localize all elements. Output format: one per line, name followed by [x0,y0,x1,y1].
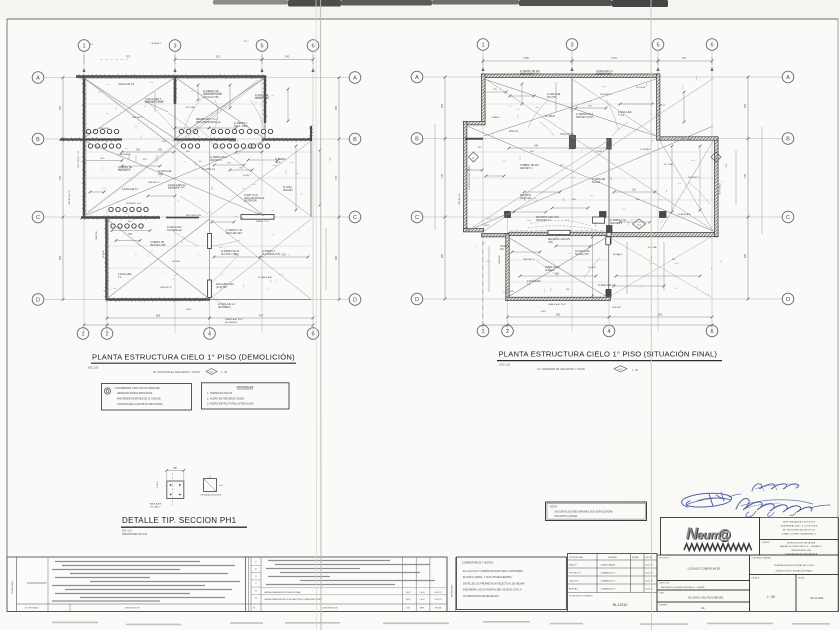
left plan wall stub axis 3 [174,77,177,105]
svg-text:1710: 1710 [611,56,617,60]
right plan interior wall axis 3 [571,78,573,138]
left plan title underline [91,362,296,364]
svg-text:CLIENTE: CLIENTE [762,542,771,544]
svg-text:VER DET 2: VER DET 2 [132,117,144,119]
left plan diagonal braces band B-C right [210,141,312,216]
nota box [546,502,647,521]
bottom revisiones strip [446,557,448,612]
right plan column block C axis2 [505,212,511,218]
left plan top wall A [76,75,266,77]
svg-text:MANTENER DESPUES DE 21 DIAS DE: MANTENER DESPUES DE 21 DIAS DE [117,398,161,401]
title block escala box [750,575,797,612]
svg-text:3. ACERO ESTRUCTURAL A270ES: 3. ACERO ESTRUCTURAL A270ES & A36 [207,403,254,406]
left plan grid horizontals [44,77,349,79]
bottom table left sub dash [27,582,47,584]
svg-text:PLANTA DE ESTRUCTURA CIELO PIS: PLANTA DE ESTRUCTURA CIELO PISO [774,564,815,567]
svg-text:ESCALA: ESCALA [752,577,760,580]
svg-text:C: C [353,215,357,221]
right plan left wall hatched [464,122,467,232]
left plan right dimension line [338,78,340,300]
svg-text:S/ LOSA: S/ LOSA [648,246,657,249]
svg-text:INGENIERIA, SOLO PODRAN SER US: INGENIERIA, SOLO PODRAN SER USADOS CON L… [463,589,522,592]
svg-text:PL 2: PL 2 [660,105,665,107]
svg-text:5: 5 [260,43,263,49]
right plan grid horizontals [423,76,782,78]
svg-text:2x PERFIL C: 2x PERFIL C [234,123,248,125]
svg-text:4 ANCLAJES: 4 ANCLAJES [118,153,132,156]
svg-text:VER DET 3: VER DET 3 [118,170,131,172]
svg-text:S/CIELO (TIP): S/CIELO (TIP) [596,74,611,76]
svg-text:N°: N° [253,608,255,610]
svg-text:PL 2: PL 2 [244,41,249,43]
neuma logo zigzag band [684,544,752,551]
neuma logo text [686,525,732,544]
svg-text:3: 3 [570,42,573,48]
svg-text:TABIQUE: TABIQUE [95,230,98,240]
svg-text:767: 767 [126,55,131,59]
svg-text:RECORTE CIELO S/N: RECORTE CIELO S/N [536,217,559,219]
left legend box demolition note [102,384,192,411]
right plan B-line wall segment left [465,138,483,140]
svg-text:S/LOSA (TIP): S/LOSA (TIP) [575,253,589,256]
svg-text:N 208 T: N 208 T [596,151,604,153]
svg-text:05.11.21: 05.11.21 [646,589,655,591]
svg-text:A: A [786,75,790,81]
svg-text:DESCRIPCION: DESCRIPCION [323,608,338,610]
svg-text:S/ DEM: S/ DEM [172,261,180,263]
approvals table frame [568,554,658,612]
svg-text:1: 1 [81,331,84,337]
svg-text:2x PERFIL: 2x PERFIL [640,149,651,151]
svg-text:P: P [473,156,475,160]
svg-text:S/PLACA 150x150x8: S/PLACA 150x150x8 [201,494,222,497]
svg-text:6: 6 [710,42,713,48]
svg-text:2x PERFIL T-10: 2x PERFIL T-10 [610,220,627,222]
left plan bottom wall D [107,298,211,300]
svg-text:TIP. DET 6: TIP. DET 6 [168,188,180,190]
right plan bottom wall D [506,297,611,300]
svg-text:DETALLES, ES PROPIEDAD INTELEC: DETALLES, ES PROPIEDAD INTELECTUAL DE NE… [463,582,525,585]
svg-text:TABIQUE: TABIQUE [498,254,501,264]
svg-text:(TIP): (TIP) [548,242,553,244]
detail section PH1 square 2 [204,479,217,492]
svg-text:S/ LOSA V-2: S/ LOSA V-2 [202,168,216,171]
title block formato row [657,602,750,612]
svg-text:2x ANCLA B-2: 2x ANCLA B-2 [167,226,182,229]
left plan grid bubbles letters left [32,72,44,84]
page border left [6,19,8,612]
svg-text:D: D [36,297,40,303]
bottom table letter column [250,557,252,612]
svg-text:2x ANCLAJE: 2x ANCLAJE [158,170,172,173]
svg-text:05.11.21: 05.11.21 [646,573,655,575]
svg-text:CONTENIDO LAMINA: CONTENIDO LAMINA [752,557,772,560]
svg-text:VIGA V-2: VIGA V-2 [500,245,510,248]
svg-text:B: B [786,136,790,142]
left plan wall axis 4 B-C [209,139,211,217]
svg-text:CONSTRUIDA LA ESTRUCTURA NUEVA: CONSTRUIDA LA ESTRUCTURA NUEVA. [117,403,164,406]
svg-text:N° PROYECTO INTERNO: N° PROYECTO INTERNO [569,596,593,598]
svg-text:05.11.21: 05.11.21 [646,581,655,583]
right plan diagonals top room [484,79,656,136]
left plan diagonal braces room A-B right [176,78,264,138]
svg-text:N 208: N 208 [243,175,250,177]
svg-text:1750: 1750 [523,56,529,60]
right plan diagonals lower room [508,237,607,297]
svg-text:VIGA V-1: VIGA V-1 [509,130,519,133]
svg-text:REEMPLAZO T, N-7: REEMPLAZO T, N-7 [196,118,218,121]
svg-text:A1: A1 [701,606,705,610]
svg-text:VER LAM DETALLE: VER LAM DETALLE [244,197,265,200]
svg-text:1: 1 [82,43,85,49]
svg-text:NL: SUPLANTA EL CIELO/PISO Y V: NL: SUPLANTA EL CIELO/PISO Y VIGAS [153,371,200,374]
right plan recorte bar 2 [593,217,605,223]
svg-text:N/ DEM.: N/ DEM. [103,249,105,258]
svg-text:SERVICIOS RIO SELVA SPA: SERVICIOS RIO SELVA SPA [787,542,815,545]
svg-text:NI-21010: NI-21010 [613,603,628,607]
svg-text:CIELO S/N: CIELO S/N [520,198,532,200]
svg-text:TAL DETALLE: TAL DETALLE [167,229,182,232]
svg-text:05.11.21: 05.11.21 [646,565,655,567]
svg-text:825: 825 [441,253,444,258]
svg-text:CON EXP/O LAMINA: CON EXP/O LAMINA [554,515,578,518]
right plan C wall middle segment [509,232,607,236]
svg-text:825: 825 [59,255,62,260]
svg-text:575: 575 [441,103,444,108]
left plan left dimension line [62,78,64,300]
svg-text:775: 775 [335,175,338,180]
right plan white bar below C at axis4 [606,237,611,245]
svg-text:VER DET 2: VER DET 2 [688,177,700,179]
right plan extra dim ticks [484,91,506,93]
bottom table bottom row labels left [17,603,448,605]
svg-text:J.M.V: J.M.V [406,592,412,594]
svg-text:D: D [353,297,357,303]
svg-text:2. ACERO DE REFUERZO A630S: 2. ACERO DE REFUERZO A630S [207,397,245,400]
svg-text:N ANCLAJE T-2: N ANCLAJE T-2 [596,70,613,73]
svg-text:NL: SUPERIOR DE CIELO/PISO Y V: NL: SUPERIOR DE CIELO/PISO Y VIGAS [538,368,586,371]
svg-text:PLANTA ESTRUCTURA CIELO 1° PIS: PLANTA ESTRUCTURA CIELO 1° PISO (DEMOLIC… [92,353,295,362]
right plan grid bubbles letters right [782,71,794,83]
svg-text:1: 1 [481,329,484,335]
svg-text:VIGA V-1 S/N: VIGA V-1 S/N [560,133,574,136]
svg-text:B: B [415,136,419,142]
left plan grid verticals [83,51,85,333]
svg-text:DEMOLER ZONAS PERCANAS.: DEMOLER ZONAS PERCANAS. [117,392,153,395]
right plan recorte bar 1 [548,230,570,234]
right plan bottom dimension lines [508,316,610,318]
left plan demolition circles row C lower [111,224,115,228]
left plan demolition circles row B upper [86,129,90,133]
right plan dashed leader arcs [530,220,592,226]
right plan lower-left wall axis 2 [506,234,509,301]
svg-text:S/N: S/N [500,249,504,251]
svg-text:INVERSIONES SPA: INVERSIONES SPA [791,549,811,552]
svg-text:FECHA: FECHA [435,607,442,610]
page border top [7,18,838,20]
left plan grid bubbles letters right [349,72,361,84]
svg-text:A PLACA (TIP): A PLACA (TIP) [203,96,219,99]
svg-text:VER DET 8: VER DET 8 [160,287,172,289]
svg-text:775: 775 [744,173,747,178]
left plan new column bar axis4 upper [208,234,212,249]
svg-text:HE-A: HE-A [275,161,281,164]
svg-text:2: 2 [506,329,509,335]
svg-text:950: 950 [556,313,561,317]
svg-text:2 ANCLAJES: 2 ANCLAJES [527,280,541,283]
svg-text:2 ANCLAJES: 2 ANCLAJES [118,273,132,276]
svg-text:VER DET: VER DET [612,307,622,309]
fold line left [315,0,318,630]
svg-text:VER DET 4 (TIP): VER DET 4 (TIP) [576,117,594,119]
svg-text:2x ANCLAJE: 2x ANCLAJE [255,94,269,97]
right plan lower room dim line [592,237,594,296]
svg-text:DETALLE TIP. SECCION PH1: DETALLE TIP. SECCION PH1 [122,516,237,525]
svg-text:575: 575 [59,105,62,110]
svg-text:DESCRIPCION: DESCRIPCION [125,608,140,610]
left plan long diagonal [90,82,262,214]
svg-text:2x ANCLAJE: 2x ANCLAJE [592,178,606,181]
left plan long cross diagonals [85,79,263,215]
svg-text:4: 4 [208,331,211,337]
svg-text:T. N-4: T. N-4 [618,115,625,117]
right plan faint extension lines [483,103,658,105]
approvals table columns [596,554,598,593]
svg-text:NOMBRE: NOMBRE [608,557,617,559]
svg-text:PLANTA ESTRUCTURA CIELO 1° PIS: PLANTA ESTRUCTURA CIELO 1° PISO (SITUACI… [499,350,718,359]
right plan C-line short wall axis1-2 [482,234,510,237]
title block client box [760,540,839,556]
right plan column block C axis5 area [660,212,667,218]
right plan upper-right horizontal wall [658,137,718,140]
left plan grid bubbles bottom [77,328,89,340]
svg-text:S/N 2: S/N 2 [541,311,547,313]
svg-text:A: A [415,75,419,81]
svg-text:1: 1 [481,42,484,48]
svg-text:E-MAIL: CONTACTO@NEUMA.CL: E-MAIL: CONTACTO@NEUMA.CL [782,533,817,536]
svg-text:N 2087 T.N-R: N 2087 T.N-R [244,195,258,197]
svg-text:PROYECTO: PROYECTO [569,573,581,575]
svg-text:CALCULO: CALCULO [569,580,579,583]
svg-text:= ALTAPRIMAR CADA NO UN ANTES: = ALTAPRIMAR CADA NO UN ANTES DE [114,387,160,390]
title block proyecto box [657,555,750,581]
right plan upper-right wall axis 5 [657,74,660,140]
svg-text:S/N: S/N [572,199,576,201]
left plan speckle marks [88,141,90,143]
svg-text:2x PERFIL T.: 2x PERFIL T. [262,251,276,253]
svg-text:825: 825 [335,255,338,260]
svg-text:J.M.V: J.M.V [406,599,412,601]
svg-text:DIBUJO: DIBUJO [569,565,577,567]
svg-text:FECHA: FECHA [798,577,805,580]
svg-text:575: 575 [335,105,338,110]
left plan diagonal braces room C-D right [210,219,312,299]
right plan interior wall axis 4 B-C [608,139,610,232]
svg-text:PLAN: PLAN [659,592,664,595]
neuma logo box [661,518,760,556]
svg-text:1 : 50: 1 : 50 [632,369,639,372]
svg-text:575: 575 [744,103,747,108]
svg-text:(EXTREMO): (EXTREMO) [218,307,231,309]
svg-text:(EXTREMO): (EXTREMO) [225,322,238,324]
svg-text:RECORTE LOSA S/N: RECORTE LOSA S/N [548,238,570,241]
left plan left wall axis 1 [83,77,85,218]
svg-text:4 Ø 12: 4 Ø 12 [157,481,159,488]
svg-text:N ANCL.: N ANCL. [492,116,501,119]
svg-text:N ANCLAJE T.N.2: N ANCLAJE T.N.2 [225,318,243,321]
left plan wall axis 6 segment [310,126,312,141]
svg-text:CARGA PARA MUERTOS ADICIONAL: CARGA PARA MUERTOS ADICIONAL [264,591,302,594]
left plan new beam bar at C [241,215,274,220]
bottom table right sub columns [402,557,404,612]
svg-text:825: 825 [744,253,747,258]
left plan wall axis 4 C-D [209,217,211,300]
svg-text:VER DET 6: VER DET 6 [148,182,160,184]
left plan right wall axis 5 [264,77,266,124]
svg-text:SUP. CIELO: SUP. CIELO [720,183,722,195]
left materials box [202,383,290,409]
right plan long cross diagonals [484,78,714,231]
svg-text:NURO MECANICA Y ESTUDIOS: NURO MECANICA Y ESTUDIOS [783,521,816,524]
svg-text:AUTORIZACION DE NEUMA INC.: AUTORIZACION DE NEUMA INC. [463,595,500,598]
left plan leader arcs [168,113,200,137]
left plan diagonal braces band B-C [84,141,264,216]
svg-text:2 ANCLAJES: 2 ANCLAJES [618,111,632,114]
svg-text:VER DET 4: VER DET 4 [600,94,612,96]
svg-text:ESC 1:50: ESC 1:50 [500,364,511,367]
right plan left bottom step [464,229,484,232]
right plan C-line main wall [611,232,718,236]
svg-text:S/ELIM 2x4: S/ELIM 2x4 [459,193,461,205]
left plan grid bubbles top [78,40,90,52]
svg-text:447: 447 [259,314,264,318]
svg-text:PL 150x8: PL 150x8 [545,116,555,118]
svg-text:PASCUALES QUINTAY ESQUINA LTL.: PASCUALES QUINTAY ESQUINA LTL. CESARE [661,586,705,589]
svg-text:L. ARANGUIZ G.: L. ARANGUIZ G. [600,588,616,591]
right plan grid1 dashed below C [482,233,484,330]
right plan grid verticals [482,51,484,331]
left plan extra dim ticks [84,160,122,162]
svg-text:RECORTE S/N: RECORTE S/N [186,215,201,217]
svg-text:T-10: T-10 [330,157,332,162]
signature blue flourish oval [682,484,830,517]
detail square1 dimension [167,470,184,472]
svg-text:VER DET 4: VER DET 4 [210,160,223,162]
svg-text:T-10: T-10 [726,163,728,168]
bottom revision table frame [7,557,447,612]
left plan small arrows at grids [82,68,85,72]
left plan demolition circles row B lower [88,144,92,148]
svg-text:NI-21010-CAL-PLN-200-001: NI-21010-CAL-PLN-200-001 [688,595,724,599]
bottom table left label column [16,557,18,612]
svg-text:REVISIONES: REVISIONES [451,584,453,597]
svg-text:6: 6 [311,331,314,337]
svg-text:2x ANCLAJE: 2x ANCLAJE [678,213,691,216]
svg-text:PROYECTO: PROYECTO [659,558,670,560]
svg-text:C: C [36,215,40,221]
svg-text:COMENTARIOS Y NOTAS:: COMENTARIOS Y NOTAS: [462,561,494,565]
svg-text:N PERFIL HE: N PERFIL HE [118,167,133,169]
svg-text:6: 6 [311,43,314,49]
svg-text:1 : 50: 1 : 50 [221,371,228,374]
svg-text:L.A.G: L.A.G [420,598,425,601]
svg-text:S/N 2: S/N 2 [484,225,490,227]
svg-text:2x PERFIL HE 200: 2x PERFIL HE 200 [520,71,540,73]
svg-text:4 ANCLAJE T.V.: 4 ANCLAJE T.V. [122,188,139,191]
svg-text:EN ESTA LAMINA, Y SUS CONSECUE: EN ESTA LAMINA, Y SUS CONSECUENTES [463,576,512,579]
svg-text:FORMATO: FORMATO [659,604,668,607]
right plan top dimension line [483,60,572,62]
svg-text:5: 5 [656,42,659,48]
svg-text:ESC 1:50: ESC 1:50 [88,366,99,369]
right plan speckle marks [474,245,477,248]
svg-text:4: 4 [607,329,610,335]
svg-text:FIRMA: FIRMA [632,556,639,559]
svg-text:B: B [36,137,40,143]
title block direccion row [657,581,750,591]
svg-text:6: 6 [710,329,713,335]
right plan grid bubbles top [477,39,489,51]
approvals table rows [568,559,658,561]
left plan C-line wall [81,216,160,218]
right plan section diamond Q [711,152,721,162]
scanner bottom dashes [52,621,98,623]
title block company info box [760,518,839,540]
svg-text:03-11-21: 03-11-21 [434,592,441,594]
left plan diagonal braces room C-D [107,219,210,299]
svg-text:APROBO: APROBO [569,588,578,591]
svg-text:VER DET. 8: VER DET. 8 [610,223,623,225]
left plan wall hatch ticks [76,74,80,78]
svg-text:ANCLAJES: ANCLAJES [150,503,162,506]
svg-text:890: 890 [156,314,161,318]
left plan bottom dimension lines [107,317,210,319]
svg-text:N 208 T: N 208 T [230,141,238,143]
svg-text:2 ANCLAJES N-4: 2 ANCLAJES N-4 [168,184,187,187]
right plan interior block axis 4 at B [607,139,611,150]
svg-text:A: A [36,75,40,81]
right plan left step wall [464,122,486,125]
right plan top wall A hatched [482,74,660,78]
svg-text:PERFIL HE-10: PERFIL HE-10 [545,267,561,269]
svg-text:SOLD. (TIP): SOLD. (TIP) [520,74,533,76]
right plan grid bubbles bottom [477,325,489,337]
detail section PH1 square 1 [167,481,184,499]
svg-text:T.V.: T.V. [118,277,122,279]
right plan column block C left of axis4 [600,212,607,218]
svg-text:EL CALCULO Y DISEÑO ESTRUCTURA: EL CALCULO Y DISEÑO ESTRUCTURAL CONTENID… [463,570,523,573]
svg-text:D: D [786,297,790,303]
svg-text:2x ANCLAJE: 2x ANCLAJE [547,93,561,96]
title block fecha box [796,575,839,612]
svg-text:N° DE PLANO: N° DE PLANO [25,607,39,610]
svg-text:03-11-21: 03-11-21 [434,599,441,601]
svg-text:S/ DEMOL. H-5: S/ DEMOL. H-5 [126,203,142,205]
svg-text:(EXTERIOR): (EXTERIOR) [244,201,257,203]
svg-text:N PERFIL HE: N PERFIL HE [150,242,165,244]
right plan diagonals middle band [467,126,713,231]
left plan faint extension lines [84,103,265,105]
svg-text:780: 780 [285,55,290,59]
svg-text:N-3 ANCLAJE: N-3 ANCLAJE [258,276,272,279]
signature blue main name [736,499,812,512]
svg-text:VER LAM. DET.: VER LAM. DET. [226,232,243,235]
svg-text:AV. PROVIDENCIA 1208 OF 207: AV. PROVIDENCIA 1208 OF 207 [783,529,816,532]
svg-text:N PERFIL HE 200: N PERFIL HE 200 [520,165,539,167]
right plan lower-right wall axis 4 [608,236,610,297]
left plan wall axis 2 C-D [105,218,107,301]
svg-text:1 PLACA T: 1 PLACA T [150,42,161,45]
